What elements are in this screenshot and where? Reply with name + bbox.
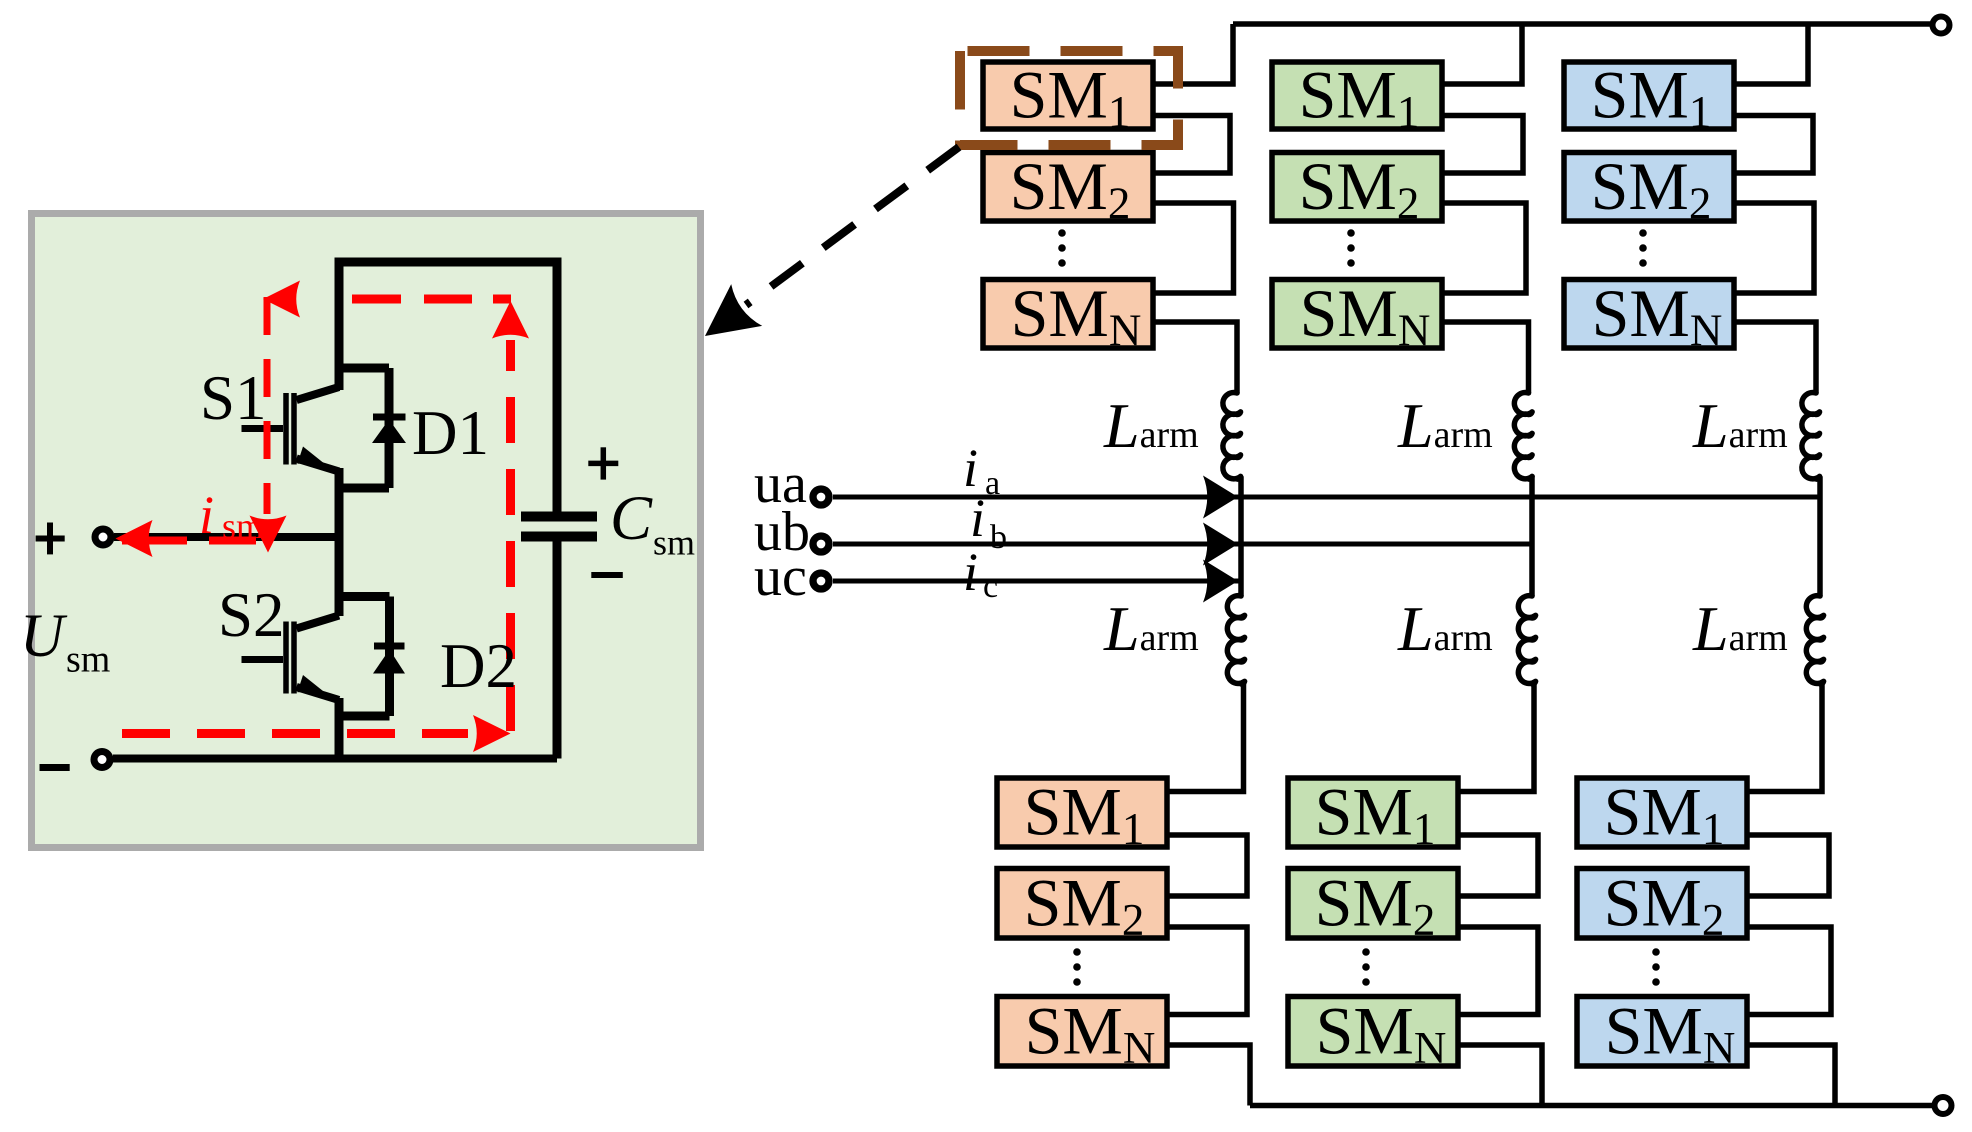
svg-text:a: a bbox=[985, 465, 1000, 502]
diode D1 branch vertical bbox=[385, 368, 394, 488]
svg-text:C: C bbox=[610, 483, 653, 553]
svg-text:i: i bbox=[970, 488, 985, 548]
transistor S1 (IGBT) bbox=[242, 387, 340, 472]
red current path: output wire dashes bbox=[122, 537, 187, 545]
ellipsis dots upper arm phase a bbox=[1058, 229, 1066, 237]
wire: AC line uc bbox=[833, 579, 1241, 584]
terminal - of submodule bbox=[94, 752, 110, 768]
red arrow up (capacitor branch) bbox=[492, 301, 529, 339]
submodule SMN upper arm phase c bbox=[1564, 280, 1734, 349]
DC terminal bottom-right bbox=[1935, 1097, 1952, 1114]
svg-text:D2: D2 bbox=[440, 631, 517, 701]
current arrow ib bbox=[1203, 523, 1238, 566]
submodule SM2 lower arm phase b bbox=[1288, 869, 1458, 939]
wire: SM2 to SMN series link upper phase c bbox=[1734, 203, 1814, 293]
svg-text:sm: sm bbox=[222, 506, 264, 546]
submodule SMN lower arm phase b bbox=[1288, 997, 1458, 1067]
wire: inductor to lower SM1 phase a bbox=[1167, 684, 1244, 792]
wire: output lead to + terminal bbox=[114, 533, 339, 541]
wire: S2 collector node jog to D2 bbox=[339, 592, 390, 601]
svg-text:S2: S2 bbox=[218, 580, 285, 650]
svg-text:S1: S1 bbox=[200, 363, 267, 433]
submodule SM1 upper arm phase a bbox=[983, 62, 1153, 129]
wire: DC bus drop to SM1 phase b bbox=[1442, 24, 1522, 84]
submodule SM2 lower arm phase c bbox=[1577, 869, 1747, 939]
wire: S1 collector node jog to D1 bbox=[339, 364, 389, 373]
wire: SM2 to SMN series link upper phase b bbox=[1442, 203, 1526, 293]
svg-text:Larm: Larm bbox=[1692, 593, 1788, 664]
DC bus negative (bottom) bbox=[1250, 1103, 1933, 1109]
wire: SM1 to SM2 series link upper phase a bbox=[1153, 116, 1230, 174]
AC terminal circle uc bbox=[813, 573, 829, 589]
wire: S2 emitter node jog to D2 bbox=[339, 712, 390, 721]
wire: inductor to lower SM1 phase b bbox=[1458, 684, 1534, 792]
wire: AC line ub bbox=[833, 542, 1532, 547]
terminal + of submodule bbox=[95, 529, 111, 545]
label + at capacitor bbox=[588, 447, 618, 479]
inductor Larm lower phase a bbox=[1227, 596, 1244, 684]
ellipsis dots lower arm phase c bbox=[1652, 948, 1660, 956]
wire: SMN to arm inductor upper phase b bbox=[1442, 322, 1529, 393]
red current path: capacitor branch dashed vertical bbox=[506, 340, 515, 731]
submodule SMN lower arm phase a bbox=[997, 997, 1167, 1067]
submodule SMN upper arm phase a bbox=[983, 280, 1153, 349]
inductor Larm lower phase b bbox=[1518, 596, 1535, 684]
submodule SM2 upper arm phase b bbox=[1272, 153, 1442, 222]
svg-text:Larm: Larm bbox=[1397, 593, 1493, 664]
AC terminal circle ua bbox=[813, 489, 829, 505]
red arrow down (left path onto output wire) bbox=[250, 516, 287, 553]
pointer arrowhead bbox=[705, 284, 762, 336]
wire: phase leg midpoint vertical phase c bbox=[1816, 479, 1820, 596]
wire: SM2 to SMN series link lower phase a bbox=[1167, 927, 1247, 1015]
wire: SMN to DC bus negative phase a bbox=[1167, 1045, 1250, 1106]
wire: midpoint vertical S1 emitter to S2 collector bbox=[335, 468, 344, 616]
dashed pointer line to inset bbox=[746, 147, 959, 305]
wire: phase leg midpoint vertical phase b bbox=[1529, 479, 1533, 596]
svg-text:b: b bbox=[990, 519, 1007, 556]
wire: bottom rail to - terminal bbox=[113, 755, 557, 763]
red current path: left dashed vertical bbox=[264, 297, 271, 514]
svg-text:Larm: Larm bbox=[1103, 593, 1199, 664]
red arrow left (top path) bbox=[263, 281, 300, 318]
diode D2 branch vertical bbox=[385, 597, 394, 717]
red current path: top dashed segment bbox=[298, 295, 511, 304]
wire: SM1 to SM2 series link upper phase b bbox=[1442, 116, 1523, 174]
wire: SMN to DC bus negative phase c bbox=[1747, 1045, 1835, 1106]
inductor Larm upper phase a bbox=[1223, 393, 1241, 480]
submodule SM1 upper arm phase b bbox=[1272, 62, 1442, 129]
current arrow ia bbox=[1203, 476, 1238, 519]
label - at terminal bbox=[40, 764, 70, 771]
red arrow left (at + terminal) bbox=[116, 520, 153, 557]
wire: SM1 to SM2 series link lower phase b bbox=[1458, 835, 1538, 896]
DC terminal top-right bbox=[1933, 17, 1950, 34]
submodule SMN upper arm phase b bbox=[1272, 280, 1442, 349]
label + at terminal bbox=[36, 523, 65, 555]
current arrow ic bbox=[1203, 560, 1238, 603]
svg-text:U: U bbox=[20, 603, 68, 670]
svg-text:Larm: Larm bbox=[1397, 390, 1493, 461]
wire: half-bridge top bus to capacitor bbox=[339, 262, 557, 512]
svg-text:sm: sm bbox=[66, 639, 110, 681]
red current path: bottom dashed segment bbox=[122, 729, 468, 738]
svg-text:sm: sm bbox=[653, 523, 695, 563]
inductor Larm lower phase c bbox=[1806, 596, 1823, 684]
inductor Larm upper phase c bbox=[1802, 393, 1820, 480]
wire: SM1 to SM2 series link lower phase a bbox=[1167, 835, 1247, 896]
svg-text:D1: D1 bbox=[412, 398, 489, 468]
wire: phase leg midpoint vertical phase a bbox=[1237, 479, 1241, 596]
ellipsis dots upper arm phase b bbox=[1347, 229, 1355, 237]
wire: DC bus drop to SM1 phase a bbox=[1153, 24, 1233, 84]
wire: SM1 to SM2 series link upper phase c bbox=[1734, 116, 1813, 174]
svg-text:i: i bbox=[199, 485, 214, 545]
submodule SM1 lower arm phase c bbox=[1577, 778, 1747, 847]
wire: SM2 to SMN series link lower phase b bbox=[1458, 927, 1538, 1015]
wire: capacitor lower lead bbox=[553, 541, 562, 759]
svg-text:uc: uc bbox=[754, 546, 807, 608]
wire: inductor to lower SM1 phase c bbox=[1747, 684, 1822, 792]
submodule SM1 lower arm phase b bbox=[1288, 778, 1458, 847]
svg-text:i: i bbox=[963, 542, 978, 602]
wire: DC bus drop to SM1 phase c bbox=[1734, 24, 1808, 84]
wire: SMN to DC bus negative phase b bbox=[1458, 1045, 1542, 1106]
wire: SMN to arm inductor upper phase c bbox=[1734, 322, 1816, 393]
svg-text:Larm: Larm bbox=[1103, 390, 1199, 461]
submodule SM1 upper arm phase c bbox=[1564, 62, 1734, 129]
DC bus positive (top) bbox=[1233, 21, 1931, 27]
svg-text:c: c bbox=[983, 568, 998, 605]
submodule SM2 lower arm phase a bbox=[997, 869, 1167, 939]
AC terminal circle ub bbox=[813, 536, 829, 552]
wire: S2 emitter to bottom rail bbox=[335, 698, 344, 759]
inductor Larm upper phase b bbox=[1514, 393, 1532, 480]
wire: SM2 to SMN series link lower phase c bbox=[1747, 927, 1831, 1015]
svg-text:Larm: Larm bbox=[1692, 390, 1788, 461]
diode D1 symbol bbox=[372, 417, 406, 443]
submodule SMN lower arm phase c bbox=[1577, 997, 1747, 1067]
capacitor Csm plates bbox=[521, 517, 597, 537]
wire: AC line ua bbox=[833, 495, 1820, 500]
transistor S2 (IGBT) bbox=[242, 616, 340, 701]
submodule detail inset panel bbox=[32, 214, 701, 848]
ellipsis dots upper arm phase c bbox=[1639, 229, 1647, 237]
ellipsis dots lower arm phase a bbox=[1073, 948, 1081, 956]
red arrow right (bottom path) bbox=[473, 715, 511, 752]
wire: SMN to arm inductor upper phase a bbox=[1153, 322, 1237, 393]
wire: SM2 to SMN series link upper phase a bbox=[1153, 203, 1234, 293]
wire: SM1 to SM2 series link lower phase c bbox=[1747, 835, 1829, 896]
label - at capacitor bbox=[591, 572, 623, 578]
ellipsis dots lower arm phase b bbox=[1362, 948, 1370, 956]
submodule SM1 lower arm phase a bbox=[997, 778, 1167, 847]
highlight box around SM1 (brown dashed) bbox=[960, 51, 1178, 145]
wire: S1 emitter node jog to D1 bbox=[339, 484, 389, 493]
submodule SM2 upper arm phase c bbox=[1564, 153, 1734, 222]
diode D2 symbol bbox=[373, 646, 405, 674]
submodule SM2 upper arm phase a bbox=[983, 153, 1153, 222]
